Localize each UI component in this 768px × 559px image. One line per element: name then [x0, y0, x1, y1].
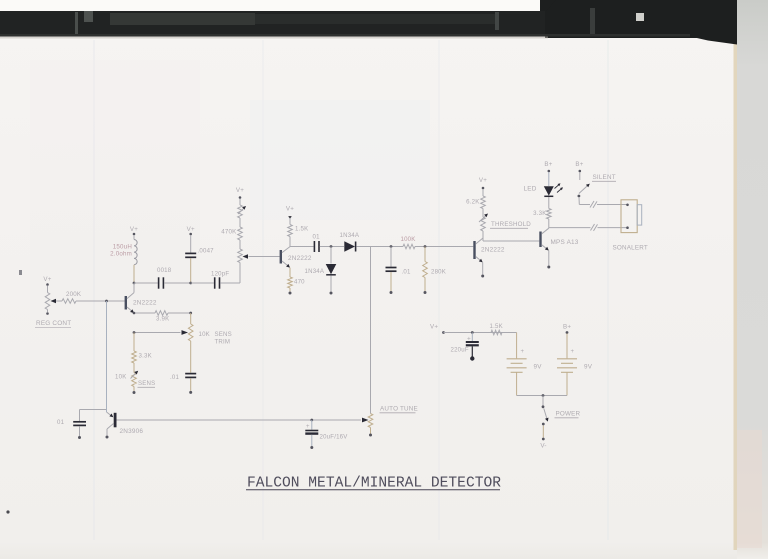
terminal dot sens trim	[189, 391, 192, 394]
svg-text:01: 01	[57, 419, 65, 426]
junction node 220uF	[471, 331, 474, 334]
capacitor .01 emitter	[170, 374, 196, 391]
capacitor .01 filter	[386, 247, 411, 292]
svg-text:V+: V+	[430, 324, 438, 331]
diode D2 1N34A shunt	[305, 247, 337, 292]
resistor 6.2K	[466, 189, 485, 209]
svg-text:2N3906: 2N3906	[120, 428, 144, 435]
wire switch to sonalert top	[579, 204, 590, 206]
svg-text:V-: V-	[540, 443, 546, 450]
V+ terminal tune pot	[236, 187, 244, 199]
terminal dot 470	[289, 292, 292, 295]
svg-text:V+: V+	[236, 187, 244, 194]
junction node .01 filter	[390, 245, 393, 248]
potentiometer THRESHOLD	[479, 209, 531, 242]
svg-text:V+: V+	[479, 177, 487, 184]
B+ battery terminal	[563, 324, 571, 334]
svg-text:0018: 0018	[157, 267, 172, 274]
svg-text:470K: 470K	[221, 229, 237, 236]
svg-text:100K: 100K	[401, 236, 416, 243]
svg-text:.0047: .0047	[198, 248, 215, 255]
junction node emitter	[189, 312, 192, 315]
resistor 3.3K LED	[533, 197, 551, 228]
terminal dot Q5 collector	[106, 436, 109, 439]
svg-text:SENS: SENS	[138, 380, 155, 387]
wire slash to sonalert top	[597, 204, 628, 206]
svg-text:SONALERT: SONALERT	[613, 245, 648, 252]
connector slashes sonalert top	[590, 201, 597, 208]
svg-text:9V: 9V	[534, 364, 543, 371]
V+ terminal threshold	[479, 177, 487, 189]
junction node Q3 collector	[483, 240, 539, 242]
wire pot top lead	[47, 286, 49, 293]
capacitor .01 base	[57, 410, 86, 437]
potentiometer REG CONT	[45, 293, 56, 315]
junction node Q1 emitter leg	[133, 312, 136, 315]
terminal dot .01 base	[78, 436, 81, 439]
svg-text:10K: 10K	[199, 331, 210, 338]
V+ terminal detector	[187, 226, 195, 235]
capacitor 120pF	[191, 271, 240, 289]
V+ terminal oscillator	[130, 226, 138, 235]
label SENS	[138, 380, 156, 387]
switch POWER	[542, 396, 549, 441]
potentiometer 470K	[221, 199, 248, 284]
svg-text:V+: V+	[130, 226, 138, 233]
label POWER	[555, 411, 581, 418]
svg-text:1N34A: 1N34A	[340, 232, 360, 239]
connector slashes sonalert low	[591, 224, 598, 231]
wire wiper to 200K	[56, 300, 62, 302]
svg-text:B+: B+	[544, 161, 552, 168]
wire collector Q2 out	[290, 246, 314, 248]
svg-text:1.5K: 1.5K	[490, 323, 503, 330]
svg-text:2N2222: 2N2222	[133, 300, 157, 307]
svg-text:FALCON METAL/MINERAL DETECTOR: FALCON METAL/MINERAL DETECTOR	[247, 476, 501, 492]
wire emitter branch row	[134, 332, 181, 334]
capacitor 20uF	[305, 420, 348, 446]
junction Q4 collector node	[549, 227, 591, 229]
svg-text:120pF: 120pF	[211, 271, 229, 278]
svg-text:V+: V+	[43, 276, 51, 283]
svg-text:.01: .01	[402, 269, 411, 276]
junction node base Q1	[105, 300, 108, 303]
wire to battery 1	[516, 333, 518, 359]
svg-text:B+: B+	[575, 161, 583, 168]
junction node 280K	[424, 245, 427, 248]
junction node detector	[330, 245, 333, 248]
title FALCON METAL/MINERAL DETECTOR	[246, 476, 501, 492]
svg-text:280K: 280K	[431, 269, 446, 276]
resistor 280K	[423, 247, 446, 292]
svg-text:2N2222: 2N2222	[481, 247, 505, 254]
terminal dot sens	[133, 391, 136, 394]
potentiometer AUTO TUNE	[362, 414, 373, 434]
svg-text:1N34A: 1N34A	[305, 268, 325, 275]
wire wiper to Q2 base	[249, 256, 280, 258]
svg-text:1.5K: 1.5K	[295, 226, 308, 233]
switch SILENT	[578, 172, 590, 205]
terminal dot 280K	[424, 291, 427, 294]
transistor Q1 2N2222	[125, 283, 157, 313]
potentiometer SENS TRIM 10K	[182, 313, 232, 373]
resistor 100K	[401, 236, 416, 249]
junction node branch	[133, 331, 136, 334]
wire emitter row Q1	[134, 312, 155, 314]
resistor 3.3K bias	[132, 333, 152, 364]
terminal dot auto tune	[369, 434, 372, 437]
svg-text:2N2222: 2N2222	[288, 255, 312, 262]
svg-text:6.2K: 6.2K	[466, 199, 479, 206]
label AUTO TUNE	[380, 406, 418, 413]
svg-text:POWER: POWER	[556, 411, 581, 418]
B+ terminal silent	[575, 161, 583, 172]
wire auto tune long	[117, 419, 362, 421]
vertical wire to auto tune	[370, 247, 372, 414]
transistor Q3 2N2222	[473, 238, 505, 274]
inductor L1 150uH 2.0ohm	[110, 240, 137, 283]
resistor 470	[288, 268, 305, 292]
terminal dot Q4 emitter	[547, 266, 550, 269]
terminal dot Q3 emitter	[481, 275, 484, 278]
svg-text:01: 01	[313, 234, 321, 241]
transistor Q2 2N2222	[280, 247, 312, 268]
svg-text:V+: V+	[286, 206, 294, 213]
svg-text:SILENT: SILENT	[593, 174, 616, 181]
V+ terminal amp	[286, 206, 294, 220]
svg-text:10K: 10K	[115, 374, 126, 381]
svg-text:+: +	[521, 349, 525, 355]
V- terminal	[540, 443, 546, 450]
capacitor 220uF	[451, 333, 479, 361]
wire junction down to Q5	[106, 301, 108, 410]
resistor 1.5K supply	[490, 323, 503, 335]
junction node cap bus	[189, 282, 192, 285]
svg-text:TRIM: TRIM	[215, 339, 231, 346]
svg-text:V+: V+	[187, 226, 195, 233]
svg-text:MPS A13: MPS A13	[551, 239, 579, 246]
svg-text:.01: .01	[170, 374, 179, 381]
junction node power switch	[542, 394, 545, 397]
resistor 1.5K	[288, 218, 309, 247]
svg-text:470: 470	[294, 279, 305, 286]
battery B1 9V	[507, 349, 543, 396]
svg-text:150uH: 150uH	[113, 244, 132, 251]
svg-text:3.3K: 3.3K	[533, 210, 546, 217]
junction node collector Q1	[133, 282, 136, 285]
svg-text:B+: B+	[563, 324, 571, 331]
svg-text:LED: LED	[524, 186, 537, 193]
svg-text:+: +	[306, 424, 310, 430]
battery B2 9V	[557, 334, 593, 396]
capacitor .0047	[185, 235, 214, 283]
sonalert speaker	[613, 200, 648, 252]
wire slash to sonalert low	[598, 227, 628, 229]
V+ terminal reg control	[43, 276, 51, 286]
wire 200K to Q1 base	[76, 300, 125, 302]
svg-text:220uF: 220uF	[451, 347, 469, 354]
resistor 3.9K	[155, 311, 169, 323]
terminal dot .01 filter	[390, 291, 393, 294]
transistor Q5 2N3906	[80, 410, 144, 436]
svg-text:2.0ohm: 2.0ohm	[110, 251, 132, 258]
V+ supply terminal	[430, 324, 445, 334]
terminal dot D2	[330, 292, 333, 295]
transistor Q4 MPS A13	[539, 228, 578, 265]
svg-text:200K: 200K	[66, 291, 82, 298]
svg-text:SENS: SENS	[215, 331, 232, 338]
junction node 20uF	[310, 419, 313, 422]
svg-text:3.9K: 3.9K	[156, 316, 169, 323]
LED	[524, 172, 564, 196]
wire 100K to Q3 base	[415, 246, 473, 248]
potentiometer SENS 10K	[115, 363, 138, 391]
svg-text:REG CONT: REG CONT	[36, 320, 71, 327]
svg-text:AUTO TUNE: AUTO TUNE	[380, 406, 418, 413]
B+ terminal LED	[544, 161, 552, 172]
svg-text:9V: 9V	[584, 364, 593, 371]
wire V+ to coil	[133, 235, 135, 240]
svg-text:THRESHOLD: THRESHOLD	[491, 221, 531, 228]
capacitor .0018	[134, 267, 191, 289]
wire cap to diode node	[320, 246, 344, 248]
capacitor .01 coupling	[313, 234, 321, 253]
wire 3.9K to node	[168, 312, 191, 314]
wire diode to 100K	[356, 246, 403, 248]
svg-text:20uF/16V: 20uF/16V	[320, 434, 349, 441]
wire supply rail	[444, 332, 517, 334]
label SILENT	[592, 174, 616, 181]
label REG CONT	[35, 320, 71, 327]
svg-text:+: +	[571, 349, 575, 355]
diode D1 1N34A series	[340, 232, 360, 252]
wire battery bus	[517, 395, 567, 397]
terminal dot 20uF	[310, 446, 313, 449]
resistor 200K	[62, 291, 82, 303]
svg-text:3.3K: 3.3K	[139, 353, 152, 360]
